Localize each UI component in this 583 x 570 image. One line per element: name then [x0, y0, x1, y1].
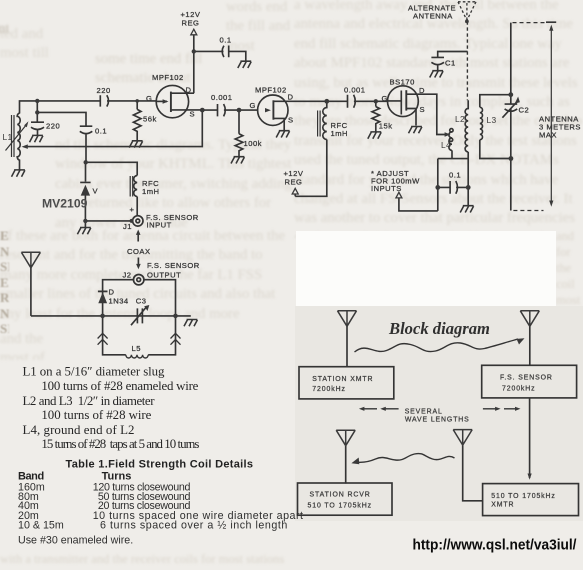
svg-text:S: S: [420, 105, 426, 114]
svg-text:G: G: [250, 101, 256, 110]
svg-text:REG: REG: [285, 177, 303, 186]
svg-text:510 TO 1705kHz: 510 TO 1705kHz: [491, 493, 555, 500]
svg-text:SEVERAL: SEVERAL: [405, 409, 443, 416]
svg-text:L2 and L3 1/2″ in diameter: L2 and L3 1/2″ in diameter: [23, 394, 156, 408]
svg-text:220: 220: [97, 86, 111, 95]
svg-text:COAX: COAX: [127, 247, 151, 256]
svg-text:0.1: 0.1: [95, 127, 107, 136]
svg-text:100 turns of #28 wire: 100 turns of #28 wire: [41, 408, 151, 422]
svg-text:STATION XMTR: STATION XMTR: [312, 376, 373, 383]
svg-text:S: S: [288, 116, 294, 125]
svg-text:C3: C3: [136, 297, 147, 306]
svg-text:XMTR: XMTR: [491, 502, 514, 509]
svg-text:100k: 100k: [244, 139, 262, 148]
svg-text:510 TO 1705kHz: 510 TO 1705kHz: [308, 503, 372, 510]
svg-text:Table 1.Field Strength Coil De: Table 1.Field Strength Coil Details: [66, 458, 254, 470]
svg-text:http://www.qsl.net/va3iul/: http://www.qsl.net/va3iul/: [413, 538, 577, 554]
svg-text:C2: C2: [519, 106, 530, 115]
svg-text:220: 220: [46, 122, 60, 131]
svg-text:G: G: [146, 94, 152, 103]
svg-text:L4: L4: [441, 140, 451, 150]
svg-text:L4, ground end of L2: L4, ground end of L2: [23, 423, 135, 437]
svg-text:INPUT: INPUT: [147, 220, 172, 229]
svg-text:C1: C1: [445, 59, 456, 68]
svg-text:G: G: [382, 94, 388, 103]
svg-text:7200kHz: 7200kHz: [502, 386, 536, 393]
svg-text:F.S. SENSOR: F.S. SENSOR: [500, 375, 553, 382]
svg-text:Use #30 enameled wire.: Use #30 enameled wire.: [18, 535, 133, 547]
svg-text:MPF102: MPF102: [255, 86, 287, 95]
svg-text:L2: L2: [455, 114, 465, 124]
svg-text:BS170: BS170: [390, 78, 415, 87]
svg-text:L5: L5: [132, 344, 141, 353]
svg-text:D: D: [109, 288, 115, 297]
svg-text:+: +: [130, 205, 135, 214]
svg-text:7200kHz: 7200kHz: [312, 386, 346, 393]
svg-text:15k: 15k: [379, 122, 393, 131]
svg-text:Block diagram: Block diagram: [388, 319, 490, 338]
svg-text:MPF102: MPF102: [152, 73, 184, 82]
svg-text:REG: REG: [182, 18, 200, 27]
svg-text:15 turns of #28 taps at 5 and: 15 turns of #28 taps at 5 and 10 turns: [41, 437, 199, 451]
svg-text:MAX: MAX: [539, 131, 557, 140]
svg-text:D: D: [186, 86, 192, 95]
svg-text:L1: L1: [3, 132, 13, 142]
svg-text:1N34: 1N34: [109, 297, 129, 306]
svg-text:F.S. SENSOR: F.S. SENSOR: [147, 261, 200, 270]
svg-text:56k: 56k: [143, 115, 157, 124]
svg-text:J1: J1: [123, 222, 132, 231]
svg-text:D: D: [288, 93, 294, 102]
svg-text:S: S: [190, 110, 196, 119]
svg-text:6 turns spaced over a ½ inch l: 6 turns spaced over a ½ inch length: [100, 520, 287, 532]
svg-text:MV2109: MV2109: [42, 197, 88, 211]
svg-text:0.001: 0.001: [211, 93, 233, 102]
svg-text:J2: J2: [123, 271, 132, 280]
svg-text:0.1: 0.1: [220, 35, 232, 44]
svg-text:10 & 15m: 10 & 15m: [18, 520, 64, 532]
svg-text:1mH: 1mH: [142, 187, 160, 196]
svg-text:100 turns of #28 enameled wire: 100 turns of #28 enameled wire: [41, 379, 198, 393]
svg-text:L1 on a 5/16″ diameter slug: L1 on a 5/16″ diameter slug: [23, 364, 166, 378]
svg-text:STATION RCVR: STATION RCVR: [310, 492, 371, 499]
svg-text:0.1: 0.1: [449, 171, 461, 180]
svg-text:WAVE LENGTHS: WAVE LENGTHS: [405, 417, 470, 424]
svg-text:0.001: 0.001: [344, 86, 366, 95]
svg-text:D: D: [419, 86, 425, 95]
svg-text:OUTPUT: OUTPUT: [147, 271, 181, 280]
svg-text:L3: L3: [487, 115, 497, 125]
svg-text:1mH: 1mH: [331, 129, 349, 138]
svg-text:V: V: [93, 187, 99, 196]
svg-text:ANTENNA: ANTENNA: [413, 11, 453, 20]
svg-text:INPUTS: INPUTS: [371, 184, 402, 193]
